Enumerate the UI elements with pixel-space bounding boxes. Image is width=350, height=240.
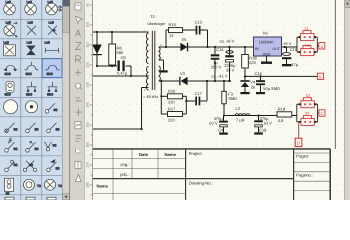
wire gnd rail bbox=[245, 75, 318, 77]
svg-text:C14: C14 bbox=[216, 47, 224, 52]
svg-text:Übertrager: Übertrager bbox=[147, 21, 166, 26]
svg-text:110: 110 bbox=[86, 42, 90, 47]
svg-text:La0: La0 bbox=[27, 40, 33, 44]
svg-text:ca. -41 V: ca. -41 V bbox=[212, 74, 228, 79]
resistor R18 bbox=[242, 55, 258, 69]
node A bbox=[319, 43, 325, 49]
svg-text:V5: V5 bbox=[182, 37, 188, 42]
vertical ruler bbox=[85, 0, 93, 200]
palette switch icon bbox=[26, 129, 30, 133]
svg-text:T2: T2 bbox=[150, 14, 155, 19]
svg-text:90: 90 bbox=[86, 3, 90, 7]
wire top rail bbox=[93, 31, 149, 33]
fuse F3 bbox=[222, 91, 238, 104]
palette switch icon bbox=[5, 129, 9, 133]
svg-text:0,47µ: 0,47µ bbox=[117, 71, 128, 76]
svg-text:SD0: SD0 bbox=[47, 92, 53, 96]
wire C18 stems bbox=[258, 116, 260, 121]
resistor R17 bbox=[168, 106, 183, 122]
tool button bbox=[76, 16, 83, 23]
wire R16 R17 branch bbox=[160, 81, 162, 114]
svg-text:220: 220 bbox=[168, 117, 175, 122]
wire snubber bbox=[165, 30, 167, 47]
svg-text:C: C bbox=[321, 111, 324, 116]
svg-text:250 V: 250 V bbox=[211, 65, 222, 70]
wire L2 rail bbox=[224, 115, 277, 117]
svg-text:220: 220 bbox=[168, 100, 175, 105]
palette cross icon bbox=[27, 26, 36, 35]
tool button bbox=[75, 69, 81, 76]
svg-text:SD0: SD0 bbox=[47, 72, 53, 76]
svg-text:X1: X1 bbox=[304, 26, 310, 31]
svg-text:Pages:: Pages: bbox=[296, 153, 309, 158]
ground secondary tap bbox=[159, 70, 167, 72]
palette cross icon bbox=[48, 26, 57, 35]
svg-text:IN: IN bbox=[255, 47, 259, 51]
palette lamp icon bbox=[46, 3, 58, 15]
palette span icon bbox=[46, 48, 59, 53]
palette fuse icon bbox=[6, 65, 15, 69]
wire secondary tap bbox=[159, 59, 164, 61]
palette box-cross icon bbox=[4, 45, 16, 56]
wire R8 bottom bbox=[111, 65, 113, 66]
svg-text:7 µH: 7 µH bbox=[236, 118, 245, 123]
svg-text:A: A bbox=[320, 44, 323, 49]
svg-text:130: 130 bbox=[86, 82, 90, 88]
wire C16 stems bbox=[260, 76, 262, 80]
svg-text:C4: C4 bbox=[218, 127, 224, 132]
tool button bbox=[76, 56, 82, 63]
capacitor C9 bbox=[117, 55, 128, 76]
svg-text:R16: R16 bbox=[168, 89, 176, 94]
svg-text:La0: La0 bbox=[45, 40, 51, 44]
svg-text:S0: S0 bbox=[56, 167, 60, 171]
svg-text:La0: La0 bbox=[49, 21, 55, 25]
palette fuse icon bbox=[48, 65, 57, 70]
palette scrollbar bbox=[63, 0, 70, 200]
svg-text:R16: R16 bbox=[169, 22, 177, 27]
node B bbox=[318, 73, 324, 79]
palette plug icon bbox=[27, 82, 37, 90]
ground C15 bbox=[282, 64, 291, 66]
svg-text:180: 180 bbox=[86, 182, 90, 188]
svg-text:Drawing-No.:: Drawing-No.: bbox=[189, 181, 213, 186]
palette relay icon bbox=[5, 178, 14, 191]
svg-text:26: 26 bbox=[251, 84, 256, 89]
wire X3 X4 pins bbox=[297, 104, 319, 122]
wire X1 X2 pins bbox=[295, 37, 319, 52]
resistor R8 bbox=[109, 44, 124, 65]
svg-text:SD0: SD0 bbox=[5, 72, 11, 76]
svg-text:140: 140 bbox=[86, 102, 90, 108]
svg-text:S0: S0 bbox=[14, 163, 18, 167]
svg-text:6,8: 6,8 bbox=[278, 118, 284, 123]
svg-text:X4: X4 bbox=[305, 110, 311, 115]
svg-text:S0: S0 bbox=[29, 163, 33, 167]
palette bowtie icon bbox=[27, 46, 35, 55]
palette transformer icon bbox=[45, 179, 56, 190]
ground IC bbox=[261, 62, 272, 64]
svg-text:620: 620 bbox=[249, 60, 256, 65]
wire +rect rail bbox=[159, 46, 254, 48]
wire C10 stem bbox=[229, 47, 231, 55]
tool button bbox=[76, 97, 82, 101]
tool button bbox=[75, 3, 81, 10]
capacitor C16 bbox=[255, 71, 281, 91]
palette switch icon bbox=[47, 129, 51, 133]
connector X3 bbox=[301, 98, 314, 108]
symbol palette panel bbox=[0, 0, 63, 200]
capacitor 2200u bbox=[224, 51, 236, 73]
capacitor C14 bbox=[211, 47, 225, 70]
wire -41V rail bbox=[159, 80, 180, 82]
ground V4 bbox=[240, 92, 249, 94]
svg-text:C17: C17 bbox=[195, 91, 203, 96]
node D bbox=[295, 138, 302, 146]
wire C14 stem bbox=[214, 47, 216, 54]
palette switch icon bbox=[5, 149, 9, 153]
diode V4 bbox=[240, 80, 256, 90]
svg-text:C16: C16 bbox=[255, 71, 263, 76]
connector X2 bbox=[301, 46, 314, 56]
svg-text:Name: Name bbox=[97, 184, 109, 189]
pin labels bbox=[144, 29, 162, 92]
svg-text:B: B bbox=[319, 74, 322, 79]
wire R8 top bbox=[111, 32, 113, 44]
svg-text:D: D bbox=[297, 141, 300, 146]
svg-text:160: 160 bbox=[86, 142, 90, 148]
palette lamp icon bbox=[25, 3, 37, 15]
inductor L2 bbox=[235, 114, 250, 116]
connector X1 bbox=[301, 31, 314, 41]
op-amp U1 LM2940 bbox=[254, 31, 282, 57]
capacitor C15 bbox=[282, 47, 299, 67]
svg-text:SMD: SMD bbox=[228, 96, 237, 101]
svg-text:120: 120 bbox=[86, 62, 90, 68]
svg-text:S0: S0 bbox=[14, 128, 18, 132]
tool button bbox=[75, 148, 80, 153]
svg-text:La0: La0 bbox=[6, 0, 12, 4]
ground C4 bbox=[219, 133, 228, 135]
tool button bbox=[76, 136, 82, 141]
capacitor C13 bbox=[195, 20, 203, 35]
wire F3 stems bbox=[223, 81, 225, 91]
partial bottom row icons bbox=[5, 197, 14, 200]
svg-text:150: 150 bbox=[86, 122, 90, 128]
svg-text:S0: S0 bbox=[6, 191, 10, 195]
canvas right scrollbar bbox=[345, 0, 350, 200]
tool button bbox=[76, 43, 82, 50]
ground C18 bbox=[254, 132, 263, 134]
svg-text:OUT: OUT bbox=[272, 47, 280, 51]
tool button bbox=[76, 175, 82, 182]
svg-text:S0: S0 bbox=[35, 128, 39, 132]
svg-text:ca. +9 V: ca. +9 V bbox=[220, 39, 235, 44]
wire primary bottom rail bbox=[93, 75, 149, 77]
svg-text:SD0: SD0 bbox=[5, 92, 11, 96]
palette switch icon bbox=[45, 110, 49, 114]
node C bbox=[319, 110, 325, 116]
schematic canvas bbox=[93, 0, 345, 200]
svg-text:12: 12 bbox=[169, 33, 174, 38]
svg-text:C18: C18 bbox=[259, 127, 267, 132]
svg-text:S0: S0 bbox=[56, 128, 60, 132]
svg-text:+5 V: +5 V bbox=[283, 41, 292, 46]
palette switch icon bbox=[23, 168, 26, 171]
svg-text:X2: X2 bbox=[305, 43, 311, 48]
svg-text:170: 170 bbox=[86, 162, 90, 168]
palette switch icon bbox=[5, 168, 9, 172]
tool column bbox=[70, 0, 85, 200]
svg-text:R19: R19 bbox=[278, 107, 286, 112]
tool button bbox=[75, 161, 81, 168]
svg-text:T0: T0 bbox=[37, 184, 41, 188]
svg-text:100: 100 bbox=[86, 22, 90, 28]
palette lamp icon bbox=[4, 3, 16, 15]
wire IC gnd stem bbox=[266, 57, 268, 62]
svg-text:C9: C9 bbox=[121, 55, 127, 60]
selected palette cell bbox=[42, 59, 62, 78]
wire C15 stems bbox=[286, 47, 288, 52]
capacitor C4 bbox=[209, 116, 228, 133]
svg-text:V3: V3 bbox=[180, 71, 186, 76]
palette switch icon bbox=[26, 149, 30, 153]
palette circle icon bbox=[4, 100, 18, 114]
svg-text:50µ SMD: 50µ SMD bbox=[263, 86, 280, 91]
svg-text:La0: La0 bbox=[27, 0, 33, 4]
transformer T2 bbox=[146, 31, 160, 90]
svg-text:Name: Name bbox=[165, 152, 177, 157]
palette plug icon bbox=[48, 82, 58, 90]
svg-text:63 V: 63 V bbox=[209, 121, 218, 126]
svg-text:prfc.:: prfc.: bbox=[120, 172, 129, 177]
wire left bus bbox=[96, 32, 98, 66]
svg-text:chg.:: chg.: bbox=[120, 162, 129, 167]
tool button bbox=[76, 109, 82, 116]
title block bbox=[93, 149, 330, 200]
tool button bbox=[75, 83, 80, 88]
palette fuse icon bbox=[27, 65, 36, 70]
palette jack icon bbox=[6, 81, 14, 92]
resistor R16 snubber bbox=[169, 22, 183, 38]
wire mid bbox=[97, 65, 117, 67]
diode V5 bbox=[180, 37, 187, 51]
ground C16 bbox=[256, 92, 265, 94]
svg-text:R17: R17 bbox=[168, 106, 176, 111]
svg-text:T0: T0 bbox=[58, 184, 62, 188]
svg-text:Pageno.:: Pageno.: bbox=[296, 173, 313, 178]
palette circle-dot icon bbox=[26, 101, 38, 113]
svg-text:S0: S0 bbox=[35, 147, 39, 151]
drawing frame right border bbox=[334, 0, 336, 149]
svg-text:La0: La0 bbox=[28, 21, 34, 25]
capacitor C18 bbox=[254, 116, 272, 133]
capacitor C17 bbox=[195, 91, 203, 105]
wire +5V rail bbox=[282, 46, 298, 48]
diode V1 bbox=[92, 45, 102, 55]
svg-text:S0: S0 bbox=[14, 147, 18, 151]
wire V4 stems bbox=[244, 76, 246, 80]
resistor R19 bbox=[277, 107, 292, 123]
svg-text:S0: S0 bbox=[54, 108, 58, 112]
svg-text:L2: L2 bbox=[236, 106, 241, 111]
diode V3 bbox=[180, 71, 188, 85]
wire to node D bbox=[298, 123, 300, 138]
svg-text:Date: Date bbox=[139, 152, 149, 157]
svg-text:C13: C13 bbox=[195, 20, 203, 25]
wire C4 stems bbox=[223, 116, 225, 121]
svg-text:Project: Project bbox=[189, 151, 203, 156]
svg-text:La0: La0 bbox=[48, 0, 54, 4]
svg-text:S0: S0 bbox=[53, 143, 57, 147]
svg-text:47µ: 47µ bbox=[291, 62, 298, 67]
svg-text:LM2940: LM2940 bbox=[259, 40, 274, 45]
palette switch icon bbox=[46, 148, 49, 151]
wire C17 link bbox=[186, 100, 195, 102]
svg-text:SD0: SD0 bbox=[26, 92, 32, 96]
svg-text:63 V: 63 V bbox=[264, 121, 273, 126]
svg-text:La0: La0 bbox=[4, 40, 10, 44]
svg-text:N1: N1 bbox=[263, 31, 269, 36]
svg-text:SD0: SD0 bbox=[26, 72, 32, 76]
wire feedback loop bbox=[93, 128, 142, 130]
junction nodes bbox=[96, 31, 286, 130]
wire R18 stems bbox=[244, 47, 246, 55]
svg-text:La0: La0 bbox=[6, 21, 12, 25]
tool button bbox=[76, 30, 81, 37]
svg-text:GND: GND bbox=[263, 52, 271, 56]
svg-text:X3: X3 bbox=[306, 93, 312, 98]
svg-text:35 V: 35 V bbox=[226, 67, 235, 72]
tool button bbox=[75, 122, 81, 129]
palette switch icon bbox=[47, 168, 51, 172]
svg-text:f = 48 kHz: f = 48 kHz bbox=[141, 95, 158, 99]
resistor R16b bbox=[168, 89, 183, 105]
connector X4 bbox=[301, 115, 314, 125]
palette lamp variable icon bbox=[4, 25, 15, 36]
palette transformer icon bbox=[24, 179, 35, 190]
